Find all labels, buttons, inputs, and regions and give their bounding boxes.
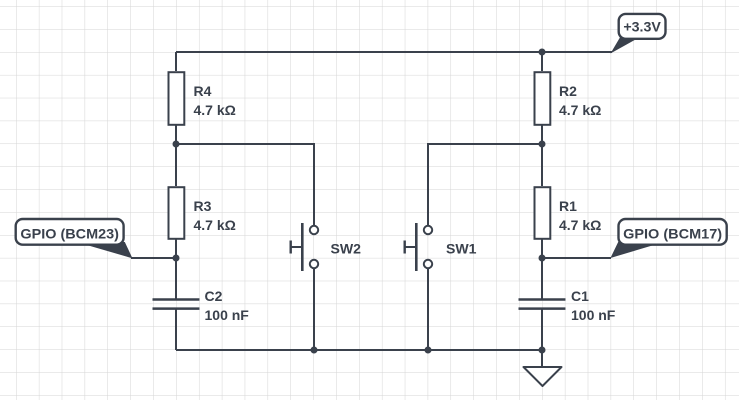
svg-text:100 nF: 100 nF — [205, 307, 250, 323]
svg-text:C2: C2 — [205, 288, 223, 304]
wire ground lead — [541, 350, 543, 367]
net label GPIO (BCM23) callout — [16, 219, 132, 258]
capacitor C1 — [519, 300, 566, 309]
wire junction to GPIO BCM17 callout tip — [542, 257, 611, 259]
svg-text:4.7 kΩ: 4.7 kΩ — [194, 217, 236, 233]
svg-text:GPIO (BCM23): GPIO (BCM23) — [20, 226, 119, 242]
junction dot top bus / R2 branch — [539, 49, 546, 56]
svg-text:C1: C1 — [571, 288, 589, 304]
wire R2 top lead — [541, 52, 543, 71]
resistor R2 — [535, 72, 551, 125]
wire R4/R3 junction to SW2 top terminal — [176, 144, 314, 226]
svg-text:R4: R4 — [194, 83, 212, 99]
wire R1 bottom to C1 top plate — [541, 239, 543, 299]
resistor R4 — [169, 72, 185, 125]
pushbutton switch SW2 — [291, 223, 318, 271]
svg-text:R2: R2 — [559, 83, 577, 99]
wire C1 bottom lead — [541, 309, 543, 350]
wire C2 bottom lead — [175, 309, 177, 350]
svg-text:4.7 kΩ: 4.7 kΩ — [559, 217, 601, 233]
junction dot SW1 bottom on ground bus — [425, 347, 432, 354]
svg-text:+3.3V: +3.3V — [623, 19, 661, 35]
svg-text:100 nF: 100 nF — [571, 307, 616, 323]
junction dot R3/C2/GPIO-BCM23 node — [173, 255, 180, 262]
svg-text:4.7 kΩ: 4.7 kΩ — [559, 102, 601, 118]
net label +3.3V (power callout) — [612, 14, 666, 52]
junction dot SW2 bottom on ground bus — [311, 347, 318, 354]
resistor R1 — [535, 187, 551, 239]
ground — [524, 367, 562, 386]
wire SW2 bottom lead — [313, 268, 315, 350]
wire SW1 bottom lead — [427, 268, 429, 350]
junction dot R4/R3/SW2 node — [173, 141, 180, 148]
svg-text:R1: R1 — [559, 198, 577, 214]
pushbutton switch SW1 — [405, 223, 432, 271]
wire R4 top lead — [175, 52, 177, 71]
junction dot C1 / ground branch — [539, 347, 546, 354]
wire R2 bottom to R1 top — [541, 125, 543, 186]
svg-text:GPIO (BCM17): GPIO (BCM17) — [623, 226, 722, 242]
junction dot R2/R1/SW1 node — [539, 141, 546, 148]
net label GPIO (BCM17) callout — [611, 219, 726, 257]
svg-text:SW1: SW1 — [446, 241, 477, 257]
wire R3 bottom to C2 top plate — [175, 239, 177, 299]
wire GPIO BCM23 callout tip to junction — [131, 257, 176, 259]
wire bottom ground bus — [176, 349, 542, 351]
svg-text:R3: R3 — [194, 198, 212, 214]
wire SW1 top terminal to R2/R1 junction — [428, 144, 542, 226]
capacitor C2 — [153, 300, 200, 309]
resistor R3 — [169, 187, 185, 239]
svg-text:4.7 kΩ: 4.7 kΩ — [194, 102, 236, 118]
svg-text:SW2: SW2 — [331, 241, 362, 257]
junction dot R1/C1/GPIO-BCM17 node — [539, 255, 546, 262]
wire R4 bottom to R3 top — [175, 125, 177, 186]
wire top +3.3V bus from R4 branch to callout tip — [176, 51, 612, 53]
